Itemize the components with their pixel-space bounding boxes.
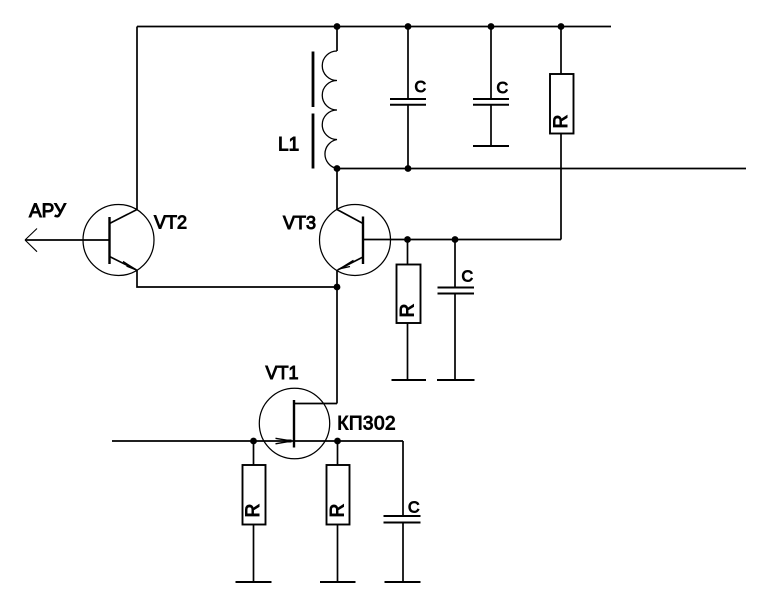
node VT3 base / R3 bbox=[404, 236, 411, 243]
svg-text:C: C bbox=[497, 80, 509, 97]
node C1 top bbox=[405, 23, 412, 30]
capacitor C1 bbox=[390, 27, 426, 169]
resistor R1 bbox=[243, 441, 266, 582]
wire VT3 emitter drop bbox=[336, 270, 338, 287]
svg-text:L1: L1 bbox=[278, 135, 299, 156]
capacitor C5 bbox=[384, 441, 421, 582]
node VT2/VT3 emitter junction bbox=[334, 284, 341, 291]
node L1 bottom bbox=[334, 165, 341, 172]
wire VT3 collector riser bbox=[336, 169, 338, 210]
svg-text:R: R bbox=[398, 304, 419, 318]
capacitor C3 bbox=[438, 240, 475, 381]
wire VT2 emitter to node bbox=[137, 270, 337, 287]
svg-text:R: R bbox=[243, 504, 264, 518]
ground C2 bbox=[473, 145, 509, 147]
svg-text:VT3: VT3 bbox=[283, 213, 316, 233]
ground R2 bbox=[320, 581, 356, 583]
inductor L1 bbox=[313, 27, 337, 169]
node C2 top bbox=[488, 23, 495, 30]
transistor VT3 bbox=[320, 205, 562, 276]
svg-text:C: C bbox=[415, 79, 427, 96]
transistor VT2 bbox=[25, 205, 154, 276]
wire VT2 collector riser bbox=[136, 27, 138, 210]
wire top rail bbox=[137, 26, 611, 28]
node R4 top bbox=[558, 23, 565, 30]
svg-text:VT2: VT2 bbox=[154, 213, 187, 233]
transistor VT1 bbox=[112, 388, 403, 458]
svg-text:VT1: VT1 bbox=[266, 363, 299, 383]
svg-text:C: C bbox=[462, 269, 474, 286]
svg-text:R: R bbox=[551, 115, 572, 129]
resistor R4 bbox=[550, 27, 574, 240]
wire second rail bbox=[337, 168, 746, 170]
capacitor C2 bbox=[473, 27, 509, 147]
node gate/R1 bbox=[250, 438, 257, 445]
node source/R2 bbox=[334, 438, 341, 445]
resistor R3 bbox=[397, 240, 421, 381]
АРУ output arrow bbox=[25, 229, 37, 252]
ground R1 bbox=[236, 581, 272, 583]
wire emitter node to VT1 drain bbox=[336, 287, 338, 404]
node L1 top bbox=[334, 23, 341, 30]
ground R3 bbox=[392, 379, 427, 381]
node VT3 base / C3 bbox=[452, 236, 459, 243]
svg-text:R: R bbox=[328, 504, 349, 518]
node C1 bottom bbox=[405, 165, 412, 172]
svg-text:АРУ: АРУ bbox=[29, 201, 67, 222]
svg-text:КП302: КП302 bbox=[337, 414, 396, 435]
ground C3 bbox=[437, 379, 475, 381]
resistor R2 bbox=[327, 441, 350, 582]
svg-text:C: C bbox=[408, 500, 420, 517]
ground C5 bbox=[385, 581, 421, 583]
